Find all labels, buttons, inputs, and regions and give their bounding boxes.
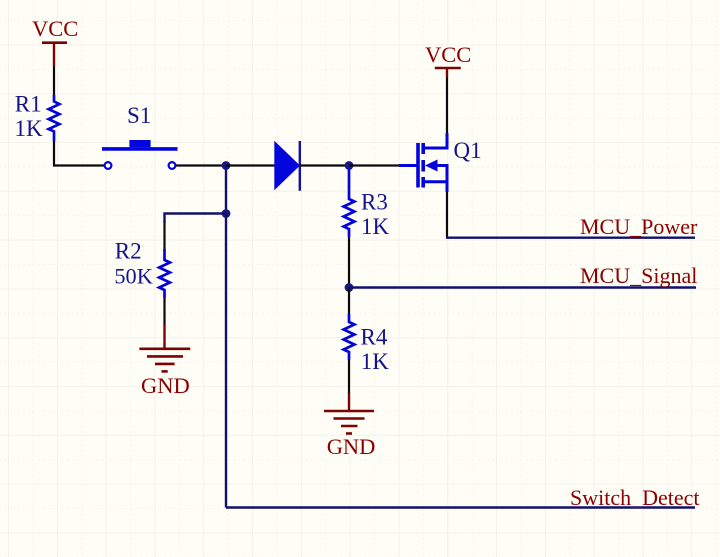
- svg-text:R2: R2: [115, 238, 142, 263]
- transistor Q1 (NMOS): [399, 133, 447, 192]
- wire R4 to GND: [348, 360, 350, 394]
- wire VCC to R1: [53, 66, 55, 96]
- svg-text:R1: R1: [15, 91, 42, 116]
- wire Switch Detect horizontal: [226, 506, 695, 508]
- junction node C: [222, 209, 231, 218]
- svg-text:R4: R4: [361, 325, 388, 350]
- svg-text:GND: GND: [141, 373, 190, 398]
- svg-text:1K: 1K: [361, 214, 390, 239]
- junction node A: [222, 161, 231, 170]
- wire node D to R4: [348, 288, 350, 316]
- svg-text:S1: S1: [127, 103, 151, 128]
- wire to R2 top: [163, 221, 165, 250]
- svg-text:1K: 1K: [361, 349, 390, 374]
- wire node B to Q1 gate: [349, 164, 400, 166]
- ground GND (R2): [139, 324, 190, 398]
- diode D1: [274, 141, 300, 191]
- resistor R3: [344, 168, 355, 237]
- wire node A down to node C: [225, 166, 227, 214]
- svg-text:VCC: VCC: [425, 42, 471, 67]
- wire R3 to node D: [348, 237, 350, 288]
- wire VCC to Q1 drain: [446, 78, 448, 135]
- wire switch pin 2 to node A: [176, 164, 226, 166]
- wire diode cathode to node B: [300, 164, 349, 166]
- wire R2 to GND: [163, 298, 165, 325]
- svg-text:1K: 1K: [15, 116, 44, 141]
- wire MCU Power horizontal: [446, 236, 695, 238]
- switch S1: [102, 140, 178, 169]
- junction node D: [345, 283, 354, 292]
- svg-text:50K: 50K: [114, 263, 152, 288]
- svg-text:VCC: VCC: [32, 16, 78, 41]
- wire R1 to switch pin 1: [54, 141, 104, 166]
- ground GND (R4): [324, 393, 375, 459]
- svg-text:GND: GND: [327, 434, 376, 459]
- power port VCC (right): [425, 42, 471, 78]
- wire MCU Signal horizontal: [349, 286, 696, 288]
- resistor R1: [49, 95, 60, 141]
- wire Q1 source down: [446, 192, 448, 238]
- junction node B: [345, 161, 354, 170]
- wire node C to R2: [165, 214, 227, 223]
- wire node A to diode anode: [226, 164, 275, 166]
- wire node C down to Switch Detect: [225, 214, 227, 508]
- svg-text:Switch_Detect: Switch_Detect: [570, 485, 700, 510]
- svg-text:MCU_Power: MCU_Power: [580, 214, 698, 239]
- svg-text:Q1: Q1: [454, 138, 482, 163]
- svg-text:MCU_Signal: MCU_Signal: [580, 263, 697, 288]
- resistor R4: [344, 314, 355, 360]
- resistor R2: [159, 249, 170, 298]
- svg-text:R3: R3: [361, 189, 388, 214]
- power port VCC (left): [32, 16, 78, 66]
